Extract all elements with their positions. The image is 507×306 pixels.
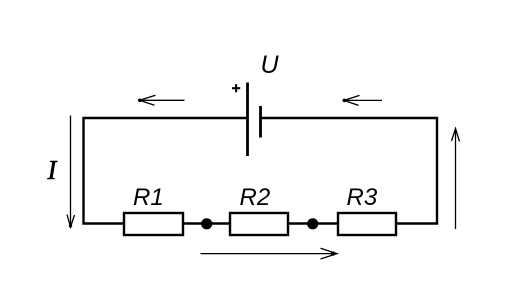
svg-text:R3: R3 bbox=[347, 184, 378, 211]
svg-text:R2: R2 bbox=[240, 184, 271, 211]
svg-text:R1: R1 bbox=[133, 184, 164, 211]
svg-text:U: U bbox=[261, 51, 280, 79]
